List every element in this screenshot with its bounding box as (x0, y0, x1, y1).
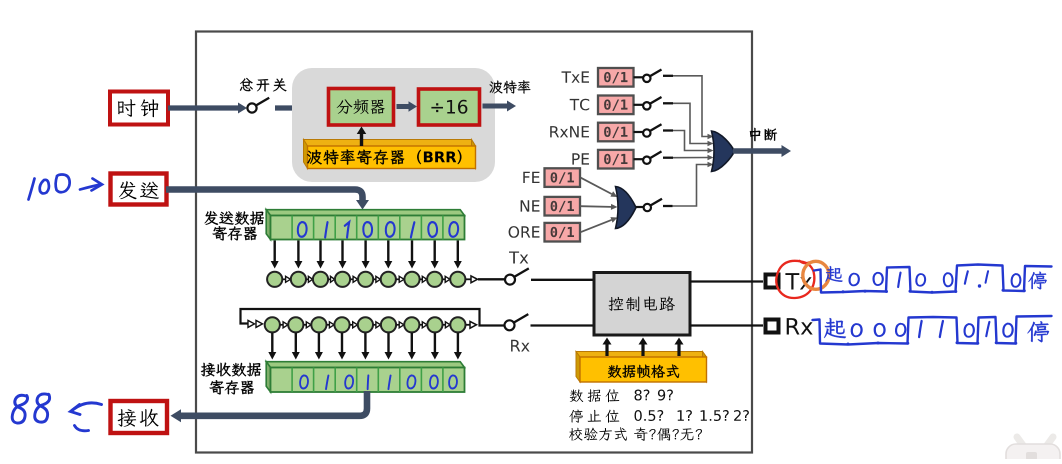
interrupt output arrow 中断 (733, 148, 782, 153)
parity line 校验方式 奇?偶?无? (569, 427, 627, 440)
Tx waveform junction dots (842, 290, 845, 293)
Tx waveform 起 start label (826, 266, 843, 282)
Tx pin label (785, 273, 811, 289)
transmit data register 发送数据寄存器 label (205, 211, 264, 225)
red circle annotation around Tx (776, 261, 814, 298)
Tx waveform 停 stop label (1028, 272, 1046, 290)
OR gate for error flags (616, 187, 637, 229)
wire transmit shift register to Tx switch (466, 278, 471, 280)
divide-by-16 box ÷16 (419, 89, 480, 125)
wire RDR to 接收 box (181, 391, 367, 416)
receive shift register circles (265, 317, 280, 332)
faint watermark bottom right (1006, 437, 1060, 464)
orange circle annotation (803, 261, 829, 289)
handwritten arrow from 接收 to 88 (71, 403, 102, 431)
control circuit box 控制电路 (594, 273, 690, 336)
transmit data register with bits 01100100 (266, 210, 464, 216)
OR gate for interrupt (712, 131, 735, 172)
wire control circuit to Rx pin (690, 324, 763, 326)
handwritten value 88 (12, 394, 49, 423)
arrows TDR bits into transmit shift register (274, 241, 276, 262)
Rx waveform line (blue handwriting) (813, 316, 1052, 345)
flag RxNE with 0/1 box and switch (550, 126, 589, 137)
clock box 时钟 (110, 92, 168, 125)
stop bits line 停止位 0.5? 1? 1.5? 2? (569, 410, 619, 423)
Tx waveform start tick and line (blue handwriting) (814, 265, 1052, 293)
receive data register 接收数据寄存器 label (201, 363, 261, 377)
wire Tx switch to control circuit (531, 279, 594, 281)
receive data register with bits 01011000 (266, 362, 464, 368)
arrow divider to div16 (397, 104, 409, 109)
USART peripheral outer box (196, 32, 752, 453)
arrows data frame format to control circuit (605, 345, 608, 357)
error flag FE with 0/1 box (523, 172, 539, 183)
error OR gate output switch (636, 206, 643, 208)
transmit shift register circles (267, 272, 282, 287)
Tx internal switch (509, 252, 528, 264)
error flag ORE with 0/1 box (509, 226, 540, 238)
handwritten arrow to 发送 (80, 179, 102, 191)
Rx waveform 停 stop label (1028, 321, 1050, 342)
main switch 总开关 (240, 78, 287, 91)
wire Rx switch to control circuit (531, 324, 595, 326)
receive shift register output arrow (466, 324, 470, 326)
Rx pin square (766, 320, 779, 333)
flag TC with 0/1 box and switch (570, 99, 590, 111)
Tx pin square (766, 275, 779, 288)
divider box 分频器 (329, 89, 394, 126)
baud rate register box 波特率寄存器（BRR） (304, 140, 476, 147)
wire main switch to divider (275, 105, 318, 110)
send box 发送 (111, 174, 167, 205)
flag PE with 0/1 box and switch (572, 153, 589, 164)
Rx pin label (787, 318, 813, 334)
wire clock to main switch (168, 105, 238, 110)
baud generator gray panel (292, 68, 495, 182)
wire error switch to interrupt OR gate (673, 165, 708, 207)
receive box 接收 (111, 401, 168, 433)
arrow BRR to divider (360, 134, 363, 146)
Rx internal switch (505, 320, 515, 330)
wire 发送 to transmit data register (166, 190, 363, 201)
baud rate output arrow 波特率 (483, 104, 508, 109)
wire control circuit to Tx pin (690, 280, 763, 282)
arrows receive shift register into RDR (271, 333, 273, 352)
wire Rx switch loop into receive shift register (241, 309, 505, 326)
handwritten value 100 (29, 175, 70, 200)
Rx waveform junction dots (847, 343, 850, 346)
error flag NE with 0/1 box (521, 200, 540, 211)
data frame format box 数据帧格式 (576, 352, 707, 358)
Tx waveform bit digits (849, 273, 859, 285)
flag TxE with 0/1 box and switch (562, 71, 590, 82)
Rx waveform 起 start label (824, 318, 846, 338)
Rx waveform bit digits (851, 324, 862, 337)
data bits line 数据位 8? 9? (570, 389, 620, 402)
